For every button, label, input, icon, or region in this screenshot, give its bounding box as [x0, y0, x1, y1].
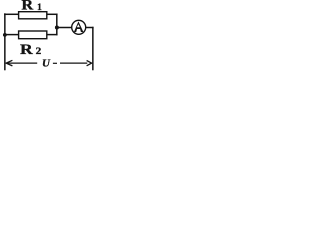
wire to ammeter — [57, 27, 72, 29]
dimension shaft left — [7, 62, 38, 64]
svg-text:R: R — [21, 0, 34, 13]
dimension arrow right head — [87, 61, 92, 66]
dimension arrow left head — [6, 60, 12, 66]
resistor R1 — [19, 12, 47, 19]
background — [0, 0, 99, 72]
wire left vertical — [4, 13, 6, 70]
wire R1 right — [47, 13, 58, 15]
wire top-left horizontal — [4, 13, 19, 15]
svg-text:U: U — [42, 58, 51, 70]
node junction right — [55, 26, 59, 30]
resistor R2 — [19, 31, 47, 39]
svg-text:R: R — [20, 40, 33, 57]
dimension dash — [53, 62, 57, 64]
wire right vertical — [92, 27, 94, 71]
svg-text:1: 1 — [37, 2, 42, 13]
node junction left — [3, 33, 7, 37]
dimension shaft right — [60, 62, 87, 64]
wire right-top vertical — [56, 14, 58, 36]
svg-text:2: 2 — [36, 47, 42, 57]
wire ammeter right — [86, 27, 94, 29]
ammeter A — [72, 20, 86, 34]
wire R2 left — [4, 34, 19, 36]
wire R2 right — [47, 34, 58, 36]
